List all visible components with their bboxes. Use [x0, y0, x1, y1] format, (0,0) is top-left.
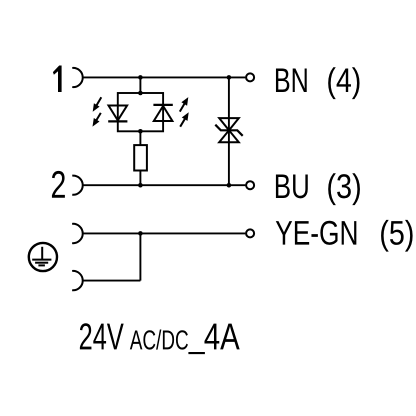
- terminal circle YE-GN: [246, 229, 254, 237]
- junction node at LED bridge top: [138, 91, 143, 96]
- wire riser joining earth contacts: [139, 233, 141, 280]
- pin 2 contact arc: [72, 176, 82, 195]
- terminal circle BN: [246, 73, 254, 81]
- wire pin2 to BU terminal: [83, 184, 246, 186]
- junction node on bottom wire at suppressor branch: [227, 183, 232, 188]
- junction node on bottom wire at resistor branch: [138, 183, 143, 188]
- junction node at LED bridge bottom: [138, 129, 143, 134]
- wire upper earth contact to YE-GN terminal: [83, 232, 246, 234]
- suppressor diode V1 (bidirectional, upper triangle): [219, 118, 239, 130]
- junction node on top wire at LED branch: [138, 75, 143, 80]
- LED D1 (left, cathode down): [108, 106, 127, 122]
- pin 1 label: [53, 66, 62, 93]
- wire pin1 to BN terminal: [83, 76, 246, 78]
- protective earth symbol PE: [29, 243, 57, 271]
- wire LED bridge to resistor: [139, 131, 141, 145]
- terminal circle BU: [246, 181, 254, 189]
- label BU (3): [276, 173, 360, 205]
- label YE-GN (5): [276, 220, 413, 252]
- suppressor diode V1 zener bar: [215, 125, 242, 136]
- pin 1 contact arc: [72, 68, 82, 87]
- LED bridge frame: [118, 93, 163, 131]
- suppressor diode V1 (lower triangle): [219, 130, 239, 142]
- wire resistor to bottom wire: [139, 171, 141, 186]
- pin 2 label: [52, 171, 65, 198]
- LED D2 (right, cathode up): [153, 105, 172, 121]
- wire top wire to LED bridge: [139, 77, 141, 93]
- junction node on YE-GN wire: [138, 231, 143, 236]
- earth contact arc upper: [72, 224, 83, 243]
- LED D2 light arrows: [180, 97, 189, 127]
- resistor R1: [134, 145, 147, 170]
- junction node on top wire at suppressor branch: [227, 75, 232, 80]
- wire suppressor branch: [228, 77, 230, 185]
- label BN (4): [276, 67, 360, 99]
- earth contact arc lower: [72, 271, 83, 290]
- LED D1 light arrows: [93, 97, 102, 126]
- supply rating label 24V AC/DC _4A: [80, 323, 240, 353]
- wire lower earth contact: [83, 280, 141, 282]
